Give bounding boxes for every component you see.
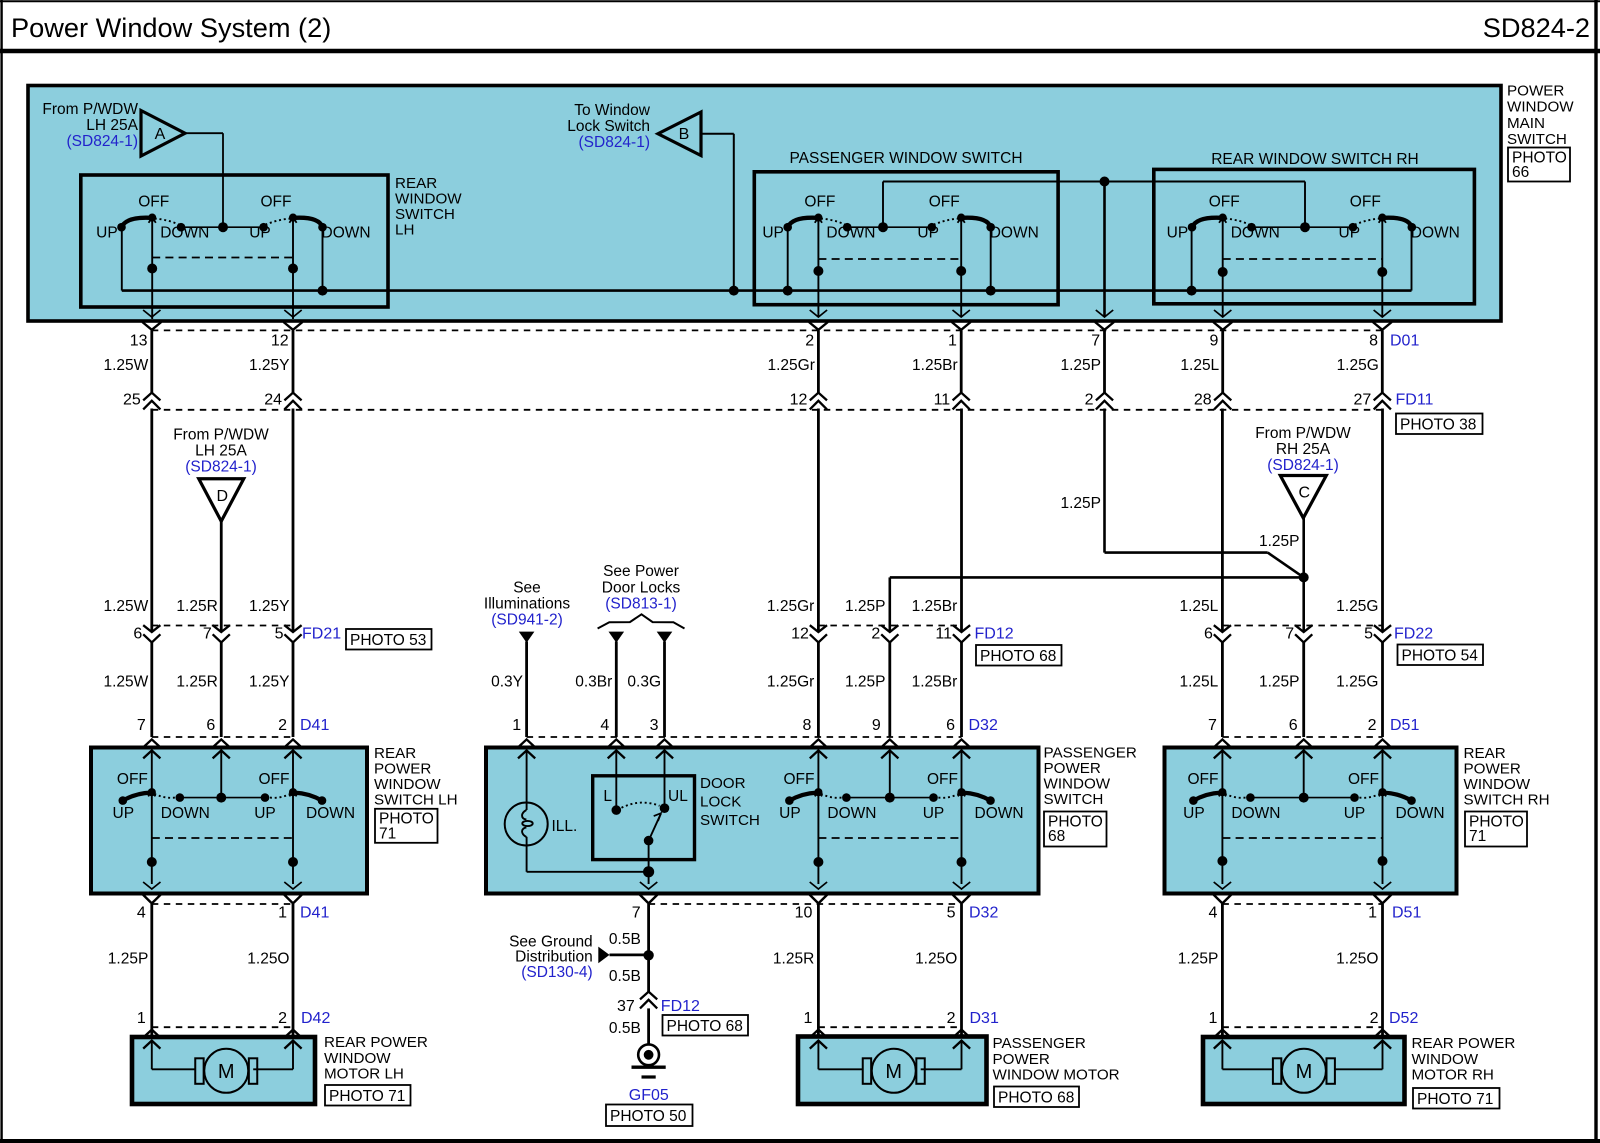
svg-text:REAR POWER: REAR POWER: [324, 1034, 428, 1051]
svg-text:D32: D32: [969, 904, 998, 921]
svg-text:PHOTO 71: PHOTO 71: [1417, 1091, 1493, 1108]
svg-text:1.25Gr: 1.25Gr: [767, 674, 814, 691]
wires FD21 to D41: [152, 642, 293, 737]
svg-text:PHOTO 38: PHOTO 38: [1400, 417, 1476, 434]
svg-text:10: 10: [795, 904, 813, 921]
wire from C to FD22 with junction: [1259, 518, 1309, 632]
svg-text:1.25Y: 1.25Y: [249, 357, 290, 374]
svg-text:PHOTO 68: PHOTO 68: [980, 648, 1056, 665]
svg-text:5: 5: [947, 904, 956, 921]
passenger switch link wire and contact drops: [783, 219, 996, 317]
svg-text:SWITCH LH: SWITCH LH: [374, 792, 458, 809]
motor M passenger: [863, 1049, 925, 1093]
svg-text:UL: UL: [668, 788, 688, 805]
svg-text:0.3Br: 0.3Br: [575, 674, 612, 691]
svg-text:66: 66: [1512, 164, 1529, 181]
RH switch link wire and contact drops: [1187, 219, 1412, 317]
photo ref PHOTO 50: [606, 1105, 693, 1127]
rear window switch LH rocker UP/OFF/DOWN (right): [249, 194, 370, 242]
svg-text:WINDOW: WINDOW: [1412, 1051, 1479, 1068]
wire 1.25P to rear motor LH: [108, 904, 152, 1039]
D51 entry chevrons: [1214, 739, 1391, 758]
svg-text:1.25Y: 1.25Y: [249, 598, 290, 615]
connector row FD22: [1204, 625, 1433, 643]
svg-text:37: 37: [617, 998, 635, 1015]
svg-text:1: 1: [1368, 904, 1377, 921]
svg-text:1.25Br: 1.25Br: [912, 598, 958, 615]
svg-text:D31: D31: [970, 1010, 999, 1027]
connector D from P/WDW LH 25A: [173, 427, 269, 522]
svg-text:1: 1: [948, 332, 957, 349]
wire from A to LH switch common: [185, 133, 228, 232]
svg-text:FD11: FD11: [1396, 391, 1434, 408]
passenger power switch rocker (left): [779, 771, 876, 822]
passenger power switch internal wires: [813, 751, 966, 884]
svg-text:D51: D51: [1392, 904, 1421, 921]
svg-text:DOWN: DOWN: [990, 224, 1039, 241]
wire gauge labels above FD21: [103, 598, 289, 615]
svg-text:Door Locks: Door Locks: [602, 580, 681, 597]
svg-text:(SD813-1): (SD813-1): [605, 596, 677, 613]
wire from B down to lock bus: [701, 134, 739, 296]
illumination lamp ILL: [505, 751, 578, 872]
wire 1.25O to rear motor LH: [247, 904, 293, 1039]
svg-text:Illuminations: Illuminations: [484, 596, 570, 613]
svg-text:PHOTO 54: PHOTO 54: [1402, 648, 1479, 665]
photo ref PHOTO 68 (ground): [663, 1015, 749, 1036]
svg-text:2: 2: [805, 332, 814, 349]
svg-text:OFF: OFF: [1348, 771, 1379, 788]
svg-text:5: 5: [275, 626, 284, 643]
motor LH entry chevrons: [143, 1030, 301, 1049]
passenger motor internal wiring: [818, 1041, 961, 1070]
svg-text:9: 9: [872, 717, 881, 734]
svg-text:D51: D51: [1390, 717, 1419, 734]
svg-text:OFF: OFF: [261, 194, 292, 211]
label REAR POWER WINDOW MOTOR LH: [324, 1034, 428, 1083]
connector row FD12 (three wire): [791, 625, 1014, 643]
door lock wire arrow (L): [575, 632, 624, 737]
svg-text:POWER: POWER: [1464, 761, 1521, 778]
wire 1.25Br main pin1 to D32: [912, 409, 962, 633]
svg-text:12: 12: [791, 626, 809, 643]
svg-text:1.25P: 1.25P: [108, 951, 149, 968]
wire main switch pin 7: [1103, 182, 1106, 317]
svg-text:PHOTO 68: PHOTO 68: [998, 1090, 1074, 1107]
svg-text:1.25Y: 1.25Y: [249, 674, 290, 691]
svg-text:8: 8: [802, 717, 811, 734]
photo ref PHOTO 68 (motor): [994, 1087, 1079, 1108]
svg-text:11: 11: [935, 626, 952, 643]
svg-text:L: L: [603, 788, 612, 805]
svg-text:SWITCH: SWITCH: [1507, 131, 1567, 148]
svg-text:DOWN: DOWN: [306, 805, 355, 822]
D32 entry chevrons: [518, 739, 970, 758]
svg-text:FD12: FD12: [975, 626, 1014, 643]
svg-text:1.25O: 1.25O: [915, 951, 957, 968]
brace over door lock wires: [598, 614, 685, 628]
wire 0.5B FD12 to ground: [609, 1008, 649, 1044]
svg-text:2: 2: [1370, 1010, 1379, 1027]
connector C from P/WDW RH 25A: [1255, 425, 1351, 518]
connector row D32 (top): [512, 717, 998, 737]
svg-text:2: 2: [871, 626, 880, 643]
rear window switch LH rocker UP/OFF/DOWN (left): [96, 194, 209, 242]
svg-text:71: 71: [1469, 828, 1486, 845]
svg-text:7: 7: [632, 904, 641, 921]
svg-text:GF05: GF05: [629, 1087, 669, 1104]
wire from D to FD21: [220, 521, 223, 632]
svg-text:4: 4: [1208, 904, 1217, 921]
wire 1.25Y FD11 to FD21: [292, 409, 295, 633]
page title "Power Window System (2)": [11, 12, 331, 43]
svg-text:6: 6: [133, 626, 142, 643]
rear window switch LH box: [81, 175, 388, 307]
svg-text:(SD941-2): (SD941-2): [491, 612, 563, 629]
svg-text:OFF: OFF: [804, 194, 835, 211]
photo ref PHOTO 66: [1508, 148, 1570, 182]
wire 1.25P to rear motor RH: [1178, 904, 1223, 1039]
svg-text:6: 6: [1204, 626, 1213, 643]
passenger window switch rocker (right): [917, 194, 1038, 242]
svg-text:6: 6: [1289, 717, 1298, 734]
svg-text:0.3G: 0.3G: [627, 674, 661, 691]
svg-text:PASSENGER WINDOW SWITCH: PASSENGER WINDOW SWITCH: [789, 150, 1022, 167]
svg-text:5: 5: [1364, 626, 1373, 643]
page number SD824-2: [1483, 12, 1590, 43]
svg-text:1.25R: 1.25R: [773, 951, 814, 968]
svg-text:1.25G: 1.25G: [1337, 357, 1379, 374]
svg-text:71: 71: [379, 825, 396, 842]
svg-text:See: See: [513, 580, 541, 597]
svg-text:11: 11: [934, 391, 951, 408]
rear switch LH rocker (left): [113, 771, 210, 822]
svg-text:M: M: [218, 1061, 235, 1083]
svg-text:UP: UP: [779, 805, 801, 822]
lamp/door-lock common wire to pin 7: [527, 866, 655, 884]
svg-text:UP: UP: [254, 805, 276, 822]
power window main switch block: [28, 86, 1501, 322]
svg-text:1.25Br: 1.25Br: [912, 674, 958, 691]
wire 0.5B junction to FD12: [609, 955, 649, 991]
svg-text:(SD130-4): (SD130-4): [521, 964, 593, 981]
svg-text:1.25P: 1.25P: [1060, 357, 1101, 374]
svg-text:12: 12: [790, 391, 808, 408]
svg-text:4: 4: [600, 717, 609, 734]
svg-text:(SD824-1): (SD824-1): [185, 459, 257, 476]
svg-text:OFF: OFF: [138, 194, 169, 211]
svg-text:7: 7: [1285, 626, 1294, 643]
svg-text:WINDOW: WINDOW: [324, 1050, 391, 1067]
wires FD22 to D51: [1180, 642, 1383, 737]
connector A from P/WDW LH 25A: [42, 101, 185, 156]
svg-text:1.25W: 1.25W: [103, 598, 148, 615]
rear power window motor LH block: [132, 1037, 315, 1104]
label REAR WINDOW SWITCH LH: [395, 175, 462, 239]
svg-text:27: 27: [1354, 391, 1372, 408]
switch LH internal wires: [147, 751, 298, 884]
wire 1.25O to passenger motor: [915, 904, 961, 1039]
svg-text:REAR: REAR: [374, 745, 416, 762]
svg-text:DOWN: DOWN: [1396, 805, 1445, 822]
photo ref PHOTO 68 (FD12): [976, 645, 1062, 666]
passenger window switch box: [754, 150, 1058, 305]
svg-text:REAR WINDOW SWITCH RH: REAR WINDOW SWITCH RH: [1211, 151, 1419, 168]
svg-text:D01: D01: [1390, 332, 1419, 349]
svg-text:1: 1: [1208, 1010, 1217, 1027]
svg-text:UP: UP: [1344, 805, 1366, 822]
svg-text:1.25P: 1.25P: [845, 598, 886, 615]
svg-text:PHOTO 71: PHOTO 71: [329, 1088, 405, 1105]
rear power window motor RH block: [1203, 1037, 1405, 1104]
svg-text:1.25R: 1.25R: [176, 598, 217, 615]
svg-text:LH: LH: [395, 222, 414, 239]
svg-text:1.25P: 1.25P: [1259, 674, 1300, 691]
label PASSENGER POWER WINDOW MOTOR: [993, 1035, 1120, 1084]
svg-text:Lock Switch: Lock Switch: [567, 118, 650, 135]
svg-text:See Power: See Power: [603, 563, 679, 580]
svg-text:1.25W: 1.25W: [103, 357, 148, 374]
rear power window switch RH block: [1165, 748, 1457, 894]
svg-text:12: 12: [271, 332, 289, 349]
passenger motor entry chevrons: [810, 1030, 970, 1049]
svg-text:FD22: FD22: [1394, 626, 1433, 643]
connector FD12 (ground wire): [617, 992, 700, 1015]
svg-text:1.25P: 1.25P: [1178, 951, 1219, 968]
svg-text:0.3Y: 0.3Y: [491, 674, 523, 691]
svg-text:DOWN: DOWN: [322, 224, 371, 241]
svg-text:FD12: FD12: [661, 998, 700, 1015]
svg-text:PHOTO 53: PHOTO 53: [350, 632, 426, 649]
svg-text:1.25G: 1.25G: [1336, 674, 1378, 691]
wire 1.25W FD11 to FD21: [150, 409, 153, 633]
photo ref PHOTO 53: [346, 629, 432, 650]
svg-text:2: 2: [278, 1010, 287, 1027]
svg-text:PASSENGER: PASSENGER: [1044, 745, 1137, 762]
rear power window switch LH block: [91, 748, 367, 894]
motor RH internal wiring: [1222, 1041, 1382, 1070]
rear window switch RH rocker (right): [1339, 194, 1460, 242]
svg-text:From P/WDW: From P/WDW: [1255, 425, 1351, 442]
FD11 pin numbers: [123, 391, 1434, 408]
svg-text:Power Window System (2): Power Window System (2): [11, 12, 331, 43]
svg-text:1.25P: 1.25P: [1259, 533, 1300, 550]
rear switch RH rocker (right): [1344, 771, 1445, 822]
photo ref PHOTO 38: [1396, 414, 1483, 435]
D01 pin numbers: [130, 332, 1420, 349]
connector B to window lock switch: [567, 102, 701, 156]
wire 1.25O to rear motor RH: [1336, 904, 1382, 1039]
svg-text:POWER: POWER: [1044, 760, 1101, 777]
svg-text:DOWN: DOWN: [1411, 224, 1460, 241]
photo ref PHOTO 54: [1398, 645, 1484, 666]
label REAR POWER WINDOW SWITCH LH: [374, 745, 458, 809]
svg-text:7: 7: [203, 626, 212, 643]
window lock bus wire: [122, 289, 1412, 292]
motor M rear RH: [1273, 1049, 1335, 1093]
svg-text:UP: UP: [762, 224, 784, 241]
svg-text:A: A: [155, 126, 166, 143]
wire 0.5B pin 7 to ground junction: [609, 904, 649, 955]
connector row FD11: [143, 393, 1391, 410]
wire 1.25L FD11 to D51: [1180, 409, 1223, 633]
wire 1.25G FD11 to D51: [1336, 409, 1382, 633]
door lock contacts L and UL: [603, 751, 688, 815]
svg-text:MAIN: MAIN: [1507, 115, 1545, 132]
svg-text:0.5B: 0.5B: [609, 931, 641, 948]
svg-text:WINDOW: WINDOW: [1044, 776, 1111, 793]
svg-text:DOWN: DOWN: [1231, 805, 1280, 822]
connector row D31: [803, 1010, 998, 1027]
svg-text:3: 3: [650, 717, 659, 734]
see ground distribution reference: [509, 933, 654, 981]
svg-text:MOTOR RH: MOTOR RH: [1412, 1067, 1494, 1084]
svg-text:OFF: OFF: [784, 771, 815, 788]
connector row D52: [1208, 1010, 1418, 1027]
svg-text:1: 1: [137, 1010, 146, 1027]
svg-text:1.25P: 1.25P: [1060, 495, 1101, 512]
svg-text:WINDOW MOTOR: WINDOW MOTOR: [993, 1067, 1120, 1084]
svg-text:28: 28: [1194, 391, 1212, 408]
door lock wire arrow (UL): [627, 632, 672, 737]
svg-text:SWITCH: SWITCH: [1044, 791, 1104, 808]
D41 entry chevrons: [143, 739, 301, 758]
label PASSENGER POWER WINDOW SWITCH: [1044, 745, 1137, 809]
svg-text:POWER: POWER: [1507, 83, 1564, 100]
connector row D01: [142, 310, 1392, 330]
wire 0.3Y illumination: [491, 642, 526, 738]
svg-text:1: 1: [803, 1010, 812, 1027]
svg-text:2: 2: [278, 717, 287, 734]
svg-text:25: 25: [123, 391, 141, 408]
FD21 pin numbers: [133, 626, 341, 643]
ground symbol GF05: [629, 1044, 669, 1104]
D41 bottom exit connectors: [137, 882, 330, 921]
svg-text:M: M: [1296, 1061, 1313, 1083]
svg-text:LH 25A: LH 25A: [86, 117, 138, 134]
connector row FD21: [143, 625, 301, 642]
wire gauge labels row 1: [103, 357, 1378, 374]
svg-text:1.25L: 1.25L: [1180, 357, 1219, 374]
svg-text:D42: D42: [301, 1010, 330, 1027]
wires FD12 to D32: [767, 642, 962, 737]
svg-text:LH 25A: LH 25A: [195, 443, 247, 460]
svg-text:D41: D41: [300, 717, 329, 734]
svg-text:1: 1: [512, 717, 521, 734]
svg-text:1.25L: 1.25L: [1180, 674, 1219, 691]
connector row D51 (top): [1208, 717, 1419, 737]
svg-text:M: M: [885, 1061, 902, 1083]
svg-text:RH 25A: RH 25A: [1276, 441, 1331, 458]
svg-text:1: 1: [278, 904, 287, 921]
svg-text:Distribution: Distribution: [515, 948, 593, 965]
svg-text:OFF: OFF: [929, 194, 960, 211]
svg-text:DOWN: DOWN: [161, 805, 210, 822]
svg-text:2: 2: [1085, 391, 1094, 408]
photo ref PHOTO 71 (motor LH): [325, 1085, 411, 1106]
svg-text:To Window: To Window: [574, 102, 651, 119]
svg-text:LOCK: LOCK: [700, 793, 741, 810]
svg-text:MOTOR LH: MOTOR LH: [324, 1066, 404, 1083]
svg-text:FD21: FD21: [302, 626, 341, 643]
wire gauge labels below FD21: [103, 674, 289, 691]
svg-text:WINDOW: WINDOW: [1507, 99, 1574, 116]
passenger power window motor block: [798, 1037, 987, 1105]
svg-text:7: 7: [137, 717, 146, 734]
D51 bottom exit connectors: [1208, 882, 1421, 921]
svg-text:D41: D41: [300, 904, 329, 921]
svg-text:7: 7: [1208, 717, 1217, 734]
svg-text:OFF: OFF: [1350, 194, 1381, 211]
feed wire from pin7 node to passenger and RH switch: [878, 177, 1310, 233]
svg-text:D32: D32: [969, 717, 998, 734]
label REAR POWER WINDOW SWITCH RH: [1464, 745, 1550, 809]
svg-text:POWER: POWER: [993, 1051, 1050, 1068]
svg-text:OFF: OFF: [1188, 771, 1219, 788]
passenger power switch rocker (right): [923, 771, 1024, 822]
svg-text:1.25O: 1.25O: [1336, 951, 1378, 968]
svg-text:0.5B: 0.5B: [609, 968, 641, 985]
svg-text:WINDOW: WINDOW: [1464, 776, 1531, 793]
door lock switch box: [593, 776, 695, 860]
wire 1.25P main pin7 to junction: [1060, 409, 1303, 578]
rear window switch RH rocker (left): [1167, 194, 1280, 242]
svg-text:DOWN: DOWN: [827, 805, 876, 822]
svg-text:ILL.: ILL.: [552, 818, 578, 835]
svg-text:REAR: REAR: [1464, 745, 1506, 762]
svg-text:24: 24: [264, 391, 282, 408]
svg-text:D: D: [216, 488, 228, 505]
svg-text:68: 68: [1048, 828, 1065, 845]
svg-text:UP: UP: [1183, 805, 1205, 822]
svg-text:2: 2: [1368, 717, 1377, 734]
svg-text:UP: UP: [96, 224, 118, 241]
svg-text:REAR POWER: REAR POWER: [1412, 1035, 1516, 1052]
svg-text:UP: UP: [1167, 224, 1189, 241]
wire 1.25Gr main pin2 to D32: [767, 409, 818, 633]
motor LH internal wiring: [152, 1041, 293, 1070]
motor RH entry chevrons: [1214, 1030, 1391, 1049]
svg-text:(SD824-1): (SD824-1): [1267, 457, 1339, 474]
rear switch RH rocker (left): [1183, 771, 1280, 822]
svg-text:9: 9: [1209, 332, 1218, 349]
rear switch LH rocker (right): [254, 771, 355, 822]
svg-text:SWITCH: SWITCH: [395, 206, 455, 223]
svg-text:(SD824-1): (SD824-1): [67, 133, 139, 150]
svg-text:D52: D52: [1389, 1010, 1418, 1027]
svg-text:DOOR: DOOR: [700, 775, 746, 792]
label REAR POWER WINDOW MOTOR RH: [1412, 1035, 1516, 1084]
connector row D41 (top): [137, 717, 330, 737]
svg-text:1.25Gr: 1.25Gr: [768, 357, 815, 374]
see illuminations reference arrow: [484, 580, 570, 643]
label DOOR LOCK SWITCH: [700, 775, 760, 829]
switch RH internal wires: [1217, 751, 1387, 884]
svg-text:1.25W: 1.25W: [103, 674, 148, 691]
svg-text:REAR: REAR: [395, 175, 437, 192]
svg-text:B: B: [679, 126, 690, 143]
svg-text:1.25P: 1.25P: [845, 674, 886, 691]
svg-text:WINDOW: WINDOW: [374, 776, 441, 793]
svg-text:1.25O: 1.25O: [247, 951, 289, 968]
svg-text:C: C: [1299, 485, 1311, 502]
svg-text:(SD824-1): (SD824-1): [579, 134, 651, 151]
door lock lever: [644, 813, 661, 872]
svg-text:PHOTO 50: PHOTO 50: [610, 1108, 687, 1125]
svg-text:SWITCH RH: SWITCH RH: [1464, 792, 1550, 809]
svg-text:SWITCH: SWITCH: [700, 812, 760, 829]
svg-text:PASSENGER: PASSENGER: [993, 1035, 1086, 1052]
